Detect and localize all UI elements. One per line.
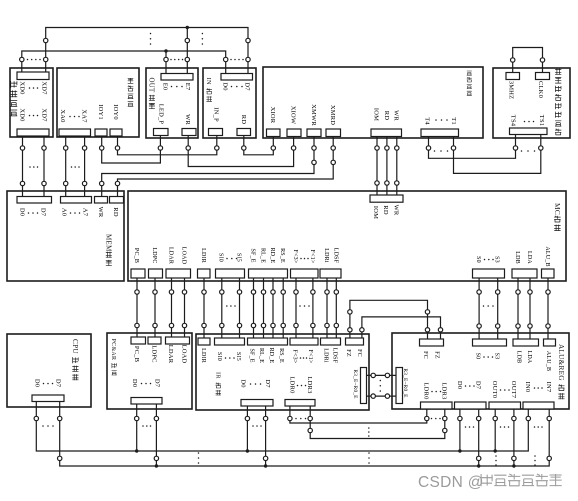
wire MC LOAD down	[184, 278, 186, 338]
bar ALU D	[455, 402, 487, 409]
svg-text:IN0: IN0	[524, 382, 531, 393]
wire PCAR D0 drop	[136, 404, 138, 451]
svg-text:RL_E: RL_E	[260, 248, 266, 263]
svg-text:LDSF: LDSF	[331, 348, 337, 364]
svg-text:OUT7: OUT7	[510, 381, 517, 399]
wire OUT WR to XIOW	[188, 136, 293, 167]
wire MC LDB down	[517, 278, 519, 339]
node IN7 circles	[547, 416, 551, 420]
bar IR LDR	[285, 400, 315, 407]
svg-text:LDA: LDA	[526, 251, 532, 264]
bar ALU IN	[523, 402, 554, 409]
svg-text:OUT0: OUT0	[491, 381, 498, 398]
wire RD ctl to MC	[386, 137, 388, 196]
bar 3MHZ	[506, 73, 520, 80]
svg-text:XMWR: XMWR	[310, 104, 317, 126]
wire D7 rail bottom	[60, 402, 550, 467]
label 控制总线	[467, 71, 472, 75]
svg-text:SI5: SI5	[236, 253, 242, 262]
wire IR D0 drop	[246, 406, 248, 451]
svg-text:E7: E7	[184, 83, 191, 91]
svg-text:RS_E: RS_E	[278, 348, 284, 363]
bar RD in	[237, 129, 251, 136]
svg-text:LDR0: LDR0	[423, 382, 430, 399]
svg-text:RD: RD	[112, 207, 119, 217]
svg-text:IOM: IOM	[372, 206, 379, 219]
svg-text:ALU_B: ALU_B	[544, 246, 550, 266]
dots	[521, 150, 523, 152]
bar ALU ALU_B	[544, 339, 556, 346]
svg-text:D0: D0	[131, 379, 138, 387]
wire XD7 to MEM D7	[43, 136, 45, 197]
dots	[29, 115, 31, 117]
svg-text:RS_E: RS_E	[279, 248, 285, 263]
dots between XD circles	[27, 59, 29, 61]
svg-text:RD: RD	[240, 115, 247, 125]
bar MEM RD	[110, 197, 124, 204]
bar ALU LDR	[421, 402, 453, 409]
bar IR LDIR	[198, 338, 210, 345]
svg-text:ALU_B: ALU_B	[545, 351, 551, 371]
svg-text:D7: D7	[153, 379, 160, 388]
wire XMRD to MEM RD	[118, 137, 334, 197]
bar CLK0	[536, 73, 550, 80]
svg-text:PC&AR: PC&AR	[110, 339, 116, 361]
svg-text:IOY1: IOY1	[97, 104, 104, 120]
wire MC RS_E down	[282, 278, 284, 338]
bar IN_P	[209, 129, 223, 136]
svg-text:ALU&REG: ALU&REG	[557, 344, 565, 381]
svg-text:D7: D7	[39, 208, 46, 217]
dots	[534, 387, 536, 389]
dots	[70, 212, 72, 214]
svg-text:D0: D0	[33, 379, 40, 387]
bar MEM D	[17, 197, 52, 204]
dots	[435, 119, 437, 121]
dots	[252, 425, 254, 427]
label 时序与操作台单元	[555, 69, 561, 75]
dots	[434, 150, 436, 152]
svg-text:CPU: CPU	[71, 339, 79, 354]
svg-text:WR: WR	[392, 110, 399, 121]
svg-text:LDR3: LDR3	[441, 382, 448, 399]
svg-text:F<3>: F<3>	[292, 350, 298, 364]
wire IOM ctl to MC	[376, 137, 378, 196]
svg-text:SF_E: SF_E	[249, 348, 255, 362]
bar MC LDRi/LDSF	[320, 269, 341, 278]
ellipsis marks bottom rails	[368, 427, 370, 429]
svg-text:FZ: FZ	[434, 351, 440, 359]
svg-text:R3_E~R0_E: R3_E~R0_E	[352, 369, 358, 399]
bar ALU R-bus vertical	[396, 368, 403, 404]
wire MC RL_E down	[263, 278, 265, 338]
svg-text:IOM: IOM	[373, 108, 380, 121]
dots	[42, 425, 44, 427]
dots	[465, 385, 467, 387]
bar XIOR	[267, 129, 281, 137]
svg-text:FZ: FZ	[345, 349, 351, 357]
dots mid S	[483, 305, 485, 307]
dots	[524, 121, 526, 123]
wire IR D7 drop	[265, 406, 267, 466]
dots	[231, 86, 233, 88]
bar MEM WR	[95, 197, 108, 204]
dots S	[484, 259, 486, 261]
svg-text:XD0: XD0	[18, 81, 25, 94]
dots SI	[226, 258, 228, 260]
box ALU&REG unit ALU&REG单元	[392, 333, 569, 409]
wire FC IR to ALU	[362, 317, 441, 339]
bar MC SI	[216, 269, 245, 278]
box timing unit 时序与操作台单元	[493, 68, 570, 138]
bar MC LDPC	[149, 269, 163, 278]
svg-text:D7: D7	[55, 379, 62, 388]
bar MC PC_B	[131, 269, 145, 278]
svg-text:F<1>: F<1>	[307, 350, 313, 364]
wire FZ IR to ALU	[350, 300, 428, 339]
svg-text:XMRD: XMRD	[329, 105, 336, 125]
dots F	[300, 258, 302, 260]
svg-text:SI5: SI5	[235, 352, 241, 361]
svg-text:RD: RD	[382, 205, 389, 215]
node D7 rail circles	[246, 38, 250, 42]
svg-text:WR: WR	[393, 205, 400, 216]
bar IR LDRi/LDSF	[321, 338, 341, 345]
svg-text:R3_E~R0_E: R3_E~R0_E	[402, 368, 408, 398]
svg-text:SI0: SI0	[216, 352, 222, 361]
wire MC SI5 down	[239, 278, 241, 338]
bar IR F	[290, 338, 318, 345]
svg-text:LDSF: LDSF	[332, 248, 338, 264]
wire E0 tap from rail2	[165, 51, 167, 74]
svg-text:IR: IR	[214, 372, 221, 379]
svg-text:D7: D7	[475, 381, 482, 390]
svg-text:XD7: XD7	[40, 108, 47, 122]
dots	[431, 391, 433, 393]
bar T1-T4	[421, 129, 459, 137]
wire OUT7 drop	[513, 409, 515, 466]
svg-text:OUT: OUT	[148, 78, 155, 94]
wire ALU D7 drop	[478, 409, 480, 466]
svg-text:RD: RD	[383, 111, 390, 121]
wire T1 to TS1	[454, 135, 541, 174]
svg-text:XIOW: XIOW	[290, 106, 297, 125]
bar XA	[59, 129, 91, 136]
svg-text:LDB: LDB	[515, 351, 521, 364]
wire MC S0 down	[478, 278, 480, 339]
dots	[29, 166, 31, 168]
label 地址总线	[128, 78, 134, 84]
svg-text:RD_E: RD_E	[269, 248, 275, 264]
box IN unit IN单元	[203, 68, 256, 138]
svg-text:IN7: IN7	[545, 382, 552, 393]
svg-text:LDB: LDB	[514, 251, 520, 264]
bar XD bottom	[17, 129, 49, 136]
svg-text:LDAR: LDAR	[167, 345, 174, 364]
bar MC signal-enable	[249, 269, 288, 278]
bar IR FZ/FC	[346, 338, 364, 345]
svg-text:MC: MC	[553, 203, 562, 215]
wire MC SF_E down	[253, 278, 255, 338]
wire MC SI0 down	[221, 278, 223, 338]
wire D0 rail bottom	[36, 402, 528, 452]
bar IR R-bus vertical	[361, 368, 367, 404]
bar IR SI	[215, 338, 245, 345]
dots	[300, 357, 302, 359]
rail ellipsis dots	[150, 33, 152, 35]
bar PCAR LDAR/LOAD	[166, 337, 190, 344]
connector R bus between IR and ALU	[367, 374, 397, 376]
bar IR D	[241, 400, 273, 407]
svg-text:LDR0: LDR0	[289, 376, 296, 393]
svg-text:T4: T4	[424, 117, 431, 125]
box MC unit MC单元	[128, 191, 566, 281]
bar PCAR D	[131, 398, 162, 405]
wire ALU D0 drop	[459, 409, 461, 451]
bar IOY1	[95, 129, 107, 136]
wire MC LDIR down	[203, 278, 205, 338]
wire data-bus rail bit0 (XD0-E0-D0)	[22, 51, 226, 74]
svg-text:LDAR: LDAR	[168, 247, 174, 264]
svg-text:XD7: XD7	[40, 81, 47, 95]
bar WR out	[182, 129, 196, 136]
bar IOM-RD-WR group	[371, 129, 402, 137]
dots	[483, 356, 485, 358]
dots	[141, 383, 143, 385]
svg-text:3MHZ: 3MHZ	[508, 81, 515, 100]
wire 3MHZ to CLK0 loop	[513, 48, 543, 73]
svg-text:F<1>: F<1>	[309, 250, 315, 264]
dots mid F	[299, 305, 301, 307]
wire XA7 to MEM A7	[84, 136, 86, 197]
svg-text:D0: D0	[240, 379, 247, 387]
wire XA0 to MEM A0	[65, 136, 67, 197]
svg-text:LDR3: LDR3	[306, 376, 313, 393]
wire MC LDRi down	[326, 278, 328, 338]
wire data-bus rail bit7 (XD7-E7-D7)	[46, 28, 248, 75]
dots	[500, 389, 502, 391]
bar TS	[510, 128, 548, 135]
svg-text:LOAD: LOAD	[181, 247, 187, 265]
node IN0 circle	[526, 416, 530, 420]
bar ALU LDB/LDA	[513, 339, 539, 346]
svg-text:LDPC: LDPC	[151, 247, 157, 263]
wire XMWR to MEM WR	[102, 137, 314, 197]
dots	[142, 425, 144, 427]
wire MC RD_E down	[272, 278, 274, 338]
bar ALU S	[473, 339, 507, 346]
svg-text:D7: D7	[264, 379, 271, 388]
svg-text:S0: S0	[475, 353, 481, 360]
dots	[297, 385, 299, 387]
dots between E0/E7 circles	[170, 59, 172, 61]
label 数据总线	[10, 81, 17, 88]
bar MC F	[291, 269, 319, 278]
bar MC LDIR	[198, 269, 211, 278]
svg-text:D0: D0	[456, 381, 463, 389]
bar IR signal-enable	[248, 338, 288, 345]
dots	[43, 383, 45, 385]
wire OUT0 drop	[494, 409, 496, 451]
svg-text:CLK0: CLK0	[537, 81, 544, 98]
wire MC LDA down	[529, 278, 531, 339]
svg-text:LDRi: LDRi	[323, 248, 329, 263]
wire E7 tap from rail1	[186, 28, 188, 75]
svg-text:XIOR: XIOR	[269, 107, 276, 124]
dots	[225, 357, 227, 359]
node XD7 rail circles	[44, 38, 48, 42]
wire IR LDR3 to ALU LDR3	[310, 406, 445, 439]
bar MC LDB/LDA	[512, 269, 537, 278]
box PC&AR unit PC&AR单元	[107, 333, 192, 409]
svg-text:LDIR: LDIR	[200, 348, 206, 363]
wire IOY0 to IN select	[118, 136, 217, 155]
svg-text:D0: D0	[221, 82, 228, 90]
svg-text:D7: D7	[244, 82, 251, 91]
bar ALU OUT	[489, 402, 521, 409]
svg-text:S3: S3	[494, 256, 500, 263]
svg-text:A7: A7	[81, 208, 88, 217]
svg-text:E0: E0	[161, 83, 168, 91]
wire MC F<3> down	[295, 278, 297, 338]
svg-text:LOAD: LOAD	[180, 345, 187, 364]
svg-text:LED_P: LED_P	[158, 104, 165, 125]
svg-text:T1: T1	[450, 117, 457, 125]
dots	[250, 383, 252, 385]
svg-text:A0: A0	[60, 208, 67, 216]
wire PCAR D7 drop	[155, 404, 157, 466]
svg-text:LDPC: LDPC	[151, 345, 158, 362]
bar CPU D	[32, 395, 64, 402]
svg-text:WR: WR	[97, 207, 104, 218]
svg-text:PC_B: PC_B	[133, 346, 140, 363]
bar PCAR PC_B	[131, 337, 146, 344]
box address bus 地址总线	[57, 68, 139, 137]
bar XMRD	[326, 129, 341, 137]
wire MC LDPC down	[154, 278, 156, 338]
wire MC S3 down	[497, 278, 499, 339]
wire MC ALU_B down	[547, 278, 549, 339]
wire MC LDAR down	[171, 278, 173, 338]
svg-text:LDIR: LDIR	[200, 248, 206, 263]
bar MC ALU_B	[542, 269, 555, 278]
bar MC S0-S3	[473, 269, 505, 278]
bar PCAR LDPC	[148, 337, 161, 344]
bar XMWR	[307, 129, 321, 137]
dots	[295, 418, 297, 420]
svg-text:F<3>: F<3>	[292, 250, 298, 264]
svg-text:WR: WR	[184, 114, 191, 125]
bar MEM A	[61, 197, 92, 204]
svg-text:LDRi: LDRi	[322, 348, 328, 363]
dots between D0/D7 circles	[230, 59, 232, 61]
dots	[431, 418, 433, 420]
dots	[29, 87, 31, 89]
dots	[69, 116, 71, 118]
dots	[71, 166, 73, 168]
svg-text:IOY0: IOY0	[112, 104, 119, 120]
svg-text:S3: S3	[494, 353, 500, 360]
svg-text:FC: FC	[422, 351, 428, 359]
svg-text:PC_B: PC_B	[133, 248, 139, 263]
svg-text:MEM: MEM	[105, 234, 113, 252]
box data bus 数据总线	[10, 68, 53, 137]
svg-text:S0: S0	[475, 256, 481, 263]
dots	[28, 212, 30, 214]
bar XIOW	[287, 129, 301, 137]
bar ALU FZ/FC	[420, 339, 444, 346]
svg-text:SF_E: SF_E	[250, 248, 256, 262]
box MEM unit MEM单元	[7, 191, 124, 281]
bar D top in	[221, 74, 253, 81]
svg-text:D0: D0	[18, 208, 25, 216]
wire WR ctl to MC	[396, 137, 398, 196]
svg-text:TS4: TS4	[510, 115, 517, 127]
box control bus 控制总线	[263, 67, 483, 138]
bar MC IOM-RD-WR	[370, 195, 403, 202]
wire IN RD to XIOR	[244, 136, 273, 155]
wire IR LDR0 to ALU LDR0	[290, 406, 427, 423]
svg-text:XA7: XA7	[81, 109, 88, 123]
svg-text:CSDN @: CSDN @	[418, 474, 484, 491]
dots	[171, 86, 173, 88]
wire MC LDSF down	[335, 278, 337, 338]
bar XD top	[17, 72, 49, 80]
svg-text:RL_E: RL_E	[258, 348, 264, 363]
dots mid SI	[226, 305, 228, 307]
node CPU D7 circles	[58, 416, 62, 420]
dots	[465, 426, 467, 428]
wire MC F<1> down	[312, 278, 314, 338]
svg-text:XD0: XD0	[18, 108, 25, 121]
dots	[534, 426, 536, 428]
bar MC LDAR/LOAD	[166, 269, 191, 278]
svg-text:TS1: TS1	[538, 115, 545, 126]
svg-text:FC: FC	[356, 349, 362, 357]
bar E top	[161, 74, 193, 81]
svg-text:LDA: LDA	[526, 351, 532, 364]
svg-text:RD_E: RD_E	[268, 348, 274, 364]
box IR unit IR单元	[196, 334, 369, 410]
svg-text:SI0: SI0	[218, 253, 224, 262]
box OUT unit OUT单元	[146, 68, 198, 138]
node CPU D0 circle	[34, 416, 38, 420]
wire T4 to TS4	[429, 135, 516, 159]
svg-text:IN: IN	[205, 78, 212, 85]
bar IOY0	[110, 129, 122, 136]
box CPU internal bus CPU内总线	[7, 334, 91, 407]
wire MC PC_B down	[136, 278, 138, 338]
svg-text:IN_P: IN_P	[213, 107, 220, 122]
wire XD0 to MEM D0	[22, 136, 24, 197]
dots	[500, 426, 502, 428]
svg-text:XA0: XA0	[59, 109, 66, 122]
wire IOY1 to OUT select	[102, 136, 161, 164]
bar LED_P	[154, 129, 169, 136]
